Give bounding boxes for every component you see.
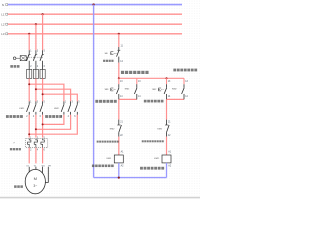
svg-text:KM1: KM1 (107, 158, 112, 160)
svg-text:KM1: KM1 (125, 89, 130, 91)
svg-text:KM2: KM2 (110, 128, 115, 130)
svg-text:KM2: KM2 (54, 108, 59, 110)
svg-text:KM1: KM1 (19, 108, 24, 110)
svg-text:KM2: KM2 (172, 89, 177, 91)
svg-text:M: M (34, 176, 37, 181)
svg-text:3~: 3~ (33, 184, 37, 188)
svg-text:L2: L2 (1, 22, 5, 26)
svg-text:KM1: KM1 (158, 128, 163, 130)
svg-text:KM2: KM2 (154, 158, 159, 160)
svg-text:N: N (2, 3, 4, 7)
svg-text:L1: L1 (1, 12, 5, 16)
svg-text:L3: L3 (1, 32, 5, 36)
